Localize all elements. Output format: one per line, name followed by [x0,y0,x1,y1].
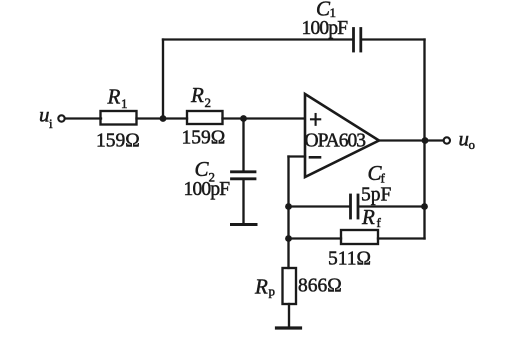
wire inverting rail down [287,157,289,269]
node F (Cf/right rail junction) [421,203,428,210]
node E (Rf/Rp junction) [285,235,292,242]
resistor R1 [101,111,137,125]
node C (output junction) [422,137,429,144]
wire Cf left [289,205,350,207]
wire C2 to ground bar [242,180,244,225]
resistor Rf [341,230,378,244]
resistor R2 [187,111,223,124]
svg-text:2: 2 [205,95,212,110]
op-amp - pin mark [310,156,320,159]
ground (C2 bottom bar) [232,223,257,226]
capacitor Cf [349,195,352,218]
svg-text:R: R [190,83,204,107]
op-amp + pin mark [311,114,320,125]
svg-text:f: f [377,215,382,230]
wire Rf left [289,237,342,239]
node D (inverting/Cf junction) [285,203,292,210]
svg-text:5pF: 5pF [361,185,392,206]
svg-text:R: R [361,205,375,229]
capacitor C1 [352,29,355,52]
wire input to R1 [65,117,101,119]
wire R2 to op-amp + input [223,117,306,119]
svg-text:o: o [469,137,476,152]
resistor Rp [283,268,297,304]
wire R1 to R2 [137,117,188,119]
wire top run to C1 [163,38,353,40]
svg-text:159Ω: 159Ω [96,131,140,152]
ground [277,326,301,329]
wire right rail vertical [423,40,425,239]
svg-text:159Ω: 159Ω [182,128,226,149]
wire Rp to ground [288,304,290,328]
wire node A up [162,40,164,119]
capacitor C2 [232,170,256,173]
svg-text:u: u [39,103,50,127]
svg-text:100pF: 100pF [184,179,231,200]
svg-text:866Ω: 866Ω [298,276,342,297]
wire Rf right [378,237,425,239]
svg-text:R: R [107,85,121,109]
wire - input stub [289,155,306,157]
svg-text:f: f [381,171,386,186]
svg-text:511Ω: 511Ω [328,248,371,269]
svg-text:OPA603: OPA603 [305,130,366,151]
node A (junction R1/R2/C1) [160,115,167,122]
op-amp U1 triangle [305,94,379,177]
wire Cf right [360,205,425,207]
output terminal u_o [444,137,450,143]
wire op-amp output [379,139,444,141]
wire C1 to right rail [363,38,425,40]
svg-text:100pF: 100pF [302,18,349,39]
node B (junction R2/C2) [240,115,247,122]
svg-text:u: u [459,127,470,151]
wire node B down to C2 [242,119,244,172]
svg-text:1: 1 [121,96,128,111]
svg-text:C: C [195,157,210,181]
svg-text:p: p [269,284,276,299]
svg-text:R: R [254,274,268,298]
input terminal u_i [58,115,64,121]
svg-text:i: i [49,116,53,131]
